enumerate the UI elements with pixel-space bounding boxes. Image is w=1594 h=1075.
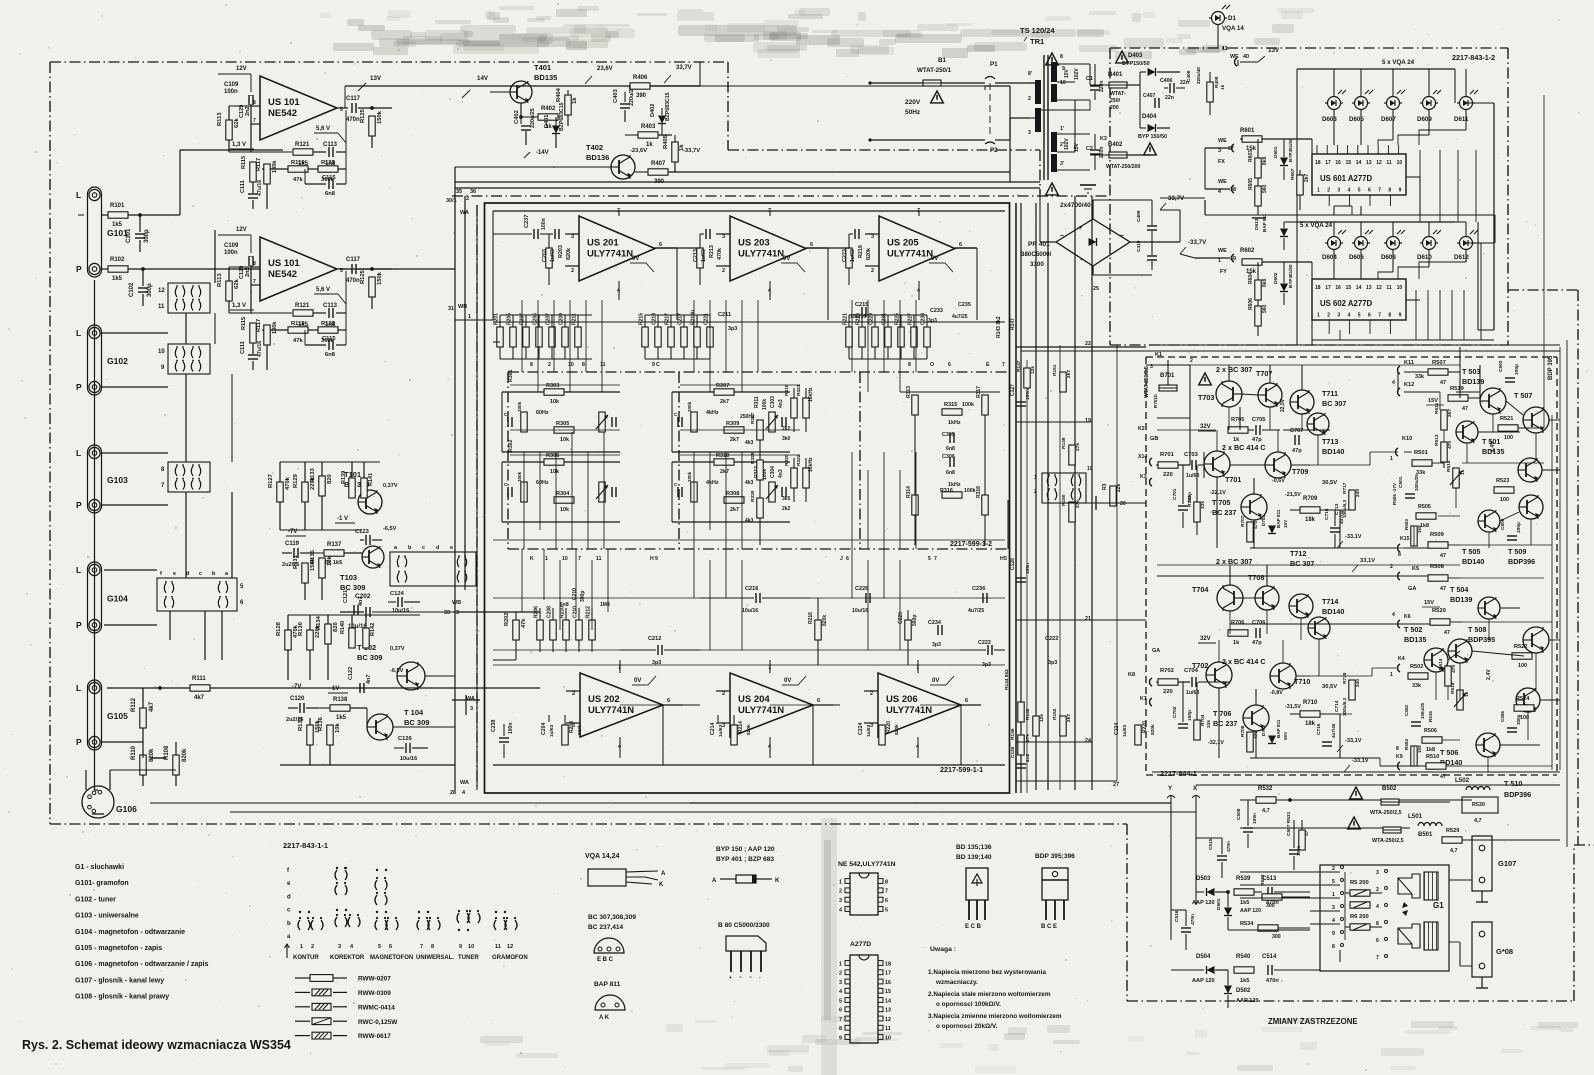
svg-text:R316: R316: [940, 488, 953, 494]
svg-text:-14V: -14V: [536, 150, 549, 156]
svg-text:US 101: US 101: [268, 258, 300, 269]
capacitor C507 R531: [1286, 811, 1310, 870]
svg-text:R606: R606: [1248, 298, 1254, 310]
svg-text:RWW-0207: RWW-0207: [358, 976, 391, 983]
svg-text:4u7/25: 4u7/25: [968, 608, 984, 614]
svg-text:D502: D502: [1236, 988, 1251, 994]
svg-text:B 80 C5000/3300: B 80 C5000/3300: [718, 922, 770, 929]
svg-text:4kHz: 4kHz: [706, 480, 719, 486]
svg-text:2k7: 2k7: [1066, 370, 1072, 378]
svg-text:1': 1': [1060, 126, 1064, 132]
svg-text:47k: 47k: [293, 338, 303, 344]
dash-dot tone dividers: [679, 372, 860, 549]
op-amp US 201: [565, 208, 677, 300]
svg-text:T712: T712: [1290, 549, 1306, 558]
capacitor C403: [613, 86, 635, 122]
svg-text:8k8: 8k8: [1262, 278, 1268, 287]
capacitor C515: [1196, 838, 1232, 878]
svg-text:BC 237,414: BC 237,414: [588, 924, 624, 931]
resistor R402: [519, 106, 560, 130]
ground G105: [143, 750, 166, 758]
svg-text:BAP 811: BAP 811: [1276, 719, 1281, 738]
svg-text:C1: C1: [1086, 76, 1093, 82]
svg-text:US 602 A277D: US 602 A277D: [1320, 299, 1373, 308]
svg-text:-33,1V: -33,1V: [1345, 738, 1362, 744]
svg-text:f: f: [160, 571, 162, 577]
svg-text:5: 5: [928, 556, 931, 562]
svg-text:1: 1: [1390, 456, 1393, 462]
svg-text:C507 R531: C507 R531: [1286, 811, 1292, 836]
svg-text:ULY7741N: ULY7741N: [588, 705, 634, 716]
svg-text:D403: D403: [1128, 53, 1143, 59]
svg-text:A: A: [661, 871, 666, 877]
transistor T-extra right1: [1518, 458, 1542, 482]
capacitor C127: [1010, 384, 1031, 406]
svg-text:TS 120/24: TS 120/24: [1020, 26, 1055, 35]
svg-text:30,5V: 30,5V: [1322, 684, 1337, 690]
svg-text:R604: R604: [1248, 272, 1254, 284]
svg-text:BC 307,308,309: BC 307,308,309: [588, 914, 636, 921]
svg-text:C516: C516: [1174, 910, 1180, 922]
svg-text:22n: 22n: [1165, 95, 1174, 101]
svg-text:6: 6: [846, 556, 849, 562]
svg-text:D402: D402: [650, 104, 656, 117]
svg-text:C409: C409: [1136, 210, 1142, 222]
svg-text:100n: 100n: [224, 89, 238, 95]
svg-text:21: 21: [1085, 616, 1091, 622]
op-amp US101 lower half: [217, 227, 392, 370]
svg-text:R705: R705: [1231, 417, 1244, 423]
resistor R130: [298, 615, 321, 680]
svg-text:470k: 470k: [285, 476, 291, 490]
svg-text:40: 40: [1243, 54, 1249, 60]
svg-text:KONTUR: KONTUR: [293, 955, 319, 961]
svg-text:100: 100: [1500, 497, 1509, 503]
svg-text:G103 - uniwersalne: G103 - uniwersalne: [75, 913, 139, 920]
capacitor C121: [343, 590, 364, 615]
capacitor C212: [620, 636, 700, 666]
svg-text:BAP 811: BAP 811: [1262, 213, 1267, 232]
transformer sec winding upper: [1051, 54, 1090, 102]
svg-text:3: 3: [1376, 870, 1379, 876]
resistor R404: [556, 87, 578, 126]
svg-text:K8: K8: [1128, 672, 1135, 678]
svg-text:GA: GA: [1408, 586, 1416, 592]
svg-text:220n: 220n: [1099, 147, 1105, 158]
svg-text:820k: 820k: [1150, 724, 1156, 735]
caption Rys.2: [22, 1038, 291, 1052]
svg-text:D613: D613: [1254, 218, 1260, 230]
svg-text:T711: T711: [1322, 389, 1338, 398]
svg-text:O: O: [930, 362, 934, 368]
svg-text:3: 3: [1028, 130, 1031, 136]
svg-text:K10: K10: [1402, 436, 1412, 442]
svg-text:BDP395: BDP395: [1468, 635, 1495, 644]
resistor R148 R152: [1025, 708, 1072, 736]
package NE542 DIP8: [838, 861, 896, 915]
resistor R101: [101, 203, 180, 228]
svg-text:8: 8: [885, 879, 888, 885]
resistor R534: [1240, 921, 1310, 940]
svg-text:K3: K3: [1140, 474, 1147, 480]
svg-text:47k: 47k: [521, 618, 527, 628]
svg-text:2: 2: [870, 691, 873, 697]
svg-text:3: 3: [1337, 313, 1340, 319]
svg-text:US 201: US 201: [587, 238, 619, 249]
capacitor C703: [1184, 452, 1204, 479]
svg-text:R702: R702: [1160, 668, 1174, 674]
wire main box vertical mesh: [522, 300, 916, 650]
capacitor C222b: [960, 640, 1005, 668]
svg-text:6: 6: [810, 242, 813, 248]
svg-text:1u/63: 1u/63: [1122, 724, 1128, 737]
connector P1: [985, 61, 1035, 135]
labels winding volts: [1064, 68, 1080, 152]
svg-text:US 202: US 202: [588, 694, 620, 705]
svg-text:KOREKTOR: KOREKTOR: [330, 955, 365, 961]
svg-text:6: 6: [965, 698, 968, 704]
svg-text:8: 8: [1060, 54, 1063, 60]
svg-text:D610: D610: [1417, 254, 1432, 261]
svg-text:R511: R511: [1434, 402, 1440, 414]
svg-text:R405: R405: [663, 134, 669, 149]
svg-text:6: 6: [817, 698, 820, 704]
svg-text:17: 17: [885, 971, 891, 977]
svg-text:US 601 A277D: US 601 A277D: [1320, 174, 1373, 183]
svg-text:C122: C122: [348, 667, 354, 680]
svg-text:470: 470: [1451, 665, 1457, 673]
svg-text:R504: R504: [1404, 739, 1409, 750]
svg-text:32V: 32V: [1200, 636, 1211, 642]
svg-text:4: 4: [839, 907, 842, 913]
svg-text:4: 4: [1332, 918, 1335, 924]
svg-text:16: 16: [1335, 285, 1341, 291]
svg-text:B501: B501: [1418, 832, 1433, 838]
svg-text:820k: 820k: [149, 748, 155, 762]
svg-text:B402: B402: [1108, 142, 1123, 148]
svg-text:L501: L501: [1408, 813, 1423, 820]
svg-text:240: 240: [1355, 679, 1361, 687]
svg-text:5: 5: [1358, 313, 1361, 319]
LED D608: [1381, 222, 1405, 261]
svg-text:5: 5: [1004, 556, 1007, 562]
svg-text:C707: C707: [1290, 428, 1303, 434]
capacitor C216: [700, 586, 810, 614]
svg-text:3k5: 3k5: [782, 496, 791, 502]
svg-text:BC 237: BC 237: [1212, 508, 1236, 517]
svg-text:1u/63: 1u/63: [701, 249, 707, 262]
transistor T503: [1462, 367, 1506, 414]
svg-text:D503: D503: [1196, 876, 1211, 882]
transformer sec winding lower: [1051, 126, 1090, 172]
label 14V: [462, 75, 489, 98]
svg-text:R123: R123: [321, 321, 336, 327]
svg-text:L: L: [76, 448, 81, 458]
svg-text:K7: K7: [1140, 696, 1147, 702]
resistor R129: [293, 462, 316, 530]
svg-text:C214: C214: [710, 722, 716, 735]
bridge PR401: [1020, 219, 1130, 268]
wire mid cross links: [1016, 347, 1146, 781]
svg-text:R505: R505: [1418, 504, 1431, 510]
svg-text:G104: G104: [107, 594, 128, 604]
svg-text:R503: R503: [1404, 519, 1409, 530]
svg-text:R315: R315: [944, 402, 957, 408]
svg-text:4,7: 4,7: [1262, 808, 1270, 814]
switch block K contacts: [1034, 466, 1093, 503]
svg-text:3: 3: [1218, 148, 1221, 154]
label 32V: [1198, 424, 1216, 431]
resistor R6: [1345, 914, 1382, 930]
svg-text:1,3 V: 1,3 V: [232, 142, 246, 148]
svg-text:100p: 100p: [1516, 714, 1521, 725]
resistor R701: [1156, 452, 1190, 478]
svg-text:B401: B401: [1108, 72, 1123, 78]
svg-text:P: P: [76, 264, 82, 274]
svg-text:12: 12: [885, 1017, 891, 1023]
svg-text:R406: R406: [633, 75, 648, 81]
svg-text:T 504: T 504: [1450, 585, 1468, 594]
ground R605: [1252, 217, 1266, 219]
coil L502 R530: [1455, 777, 1531, 824]
svg-text:WTA-250/2,5: WTA-250/2,5: [1370, 810, 1402, 816]
svg-text:R709: R709: [1303, 496, 1318, 502]
svg-text:-21,5V: -21,5V: [1285, 492, 1301, 498]
svg-text:BDP396: BDP396: [1504, 790, 1531, 799]
resistor R519: [1448, 386, 1480, 412]
diode D401: [544, 102, 565, 148]
svg-text:C208: C208: [547, 606, 553, 618]
wire LED weave lower: [1312, 290, 1494, 340]
svg-text:11: 11: [1386, 285, 1392, 291]
svg-text:300: 300: [1266, 903, 1275, 909]
svg-text:220u/40: 220u/40: [1196, 67, 1201, 84]
svg-text:1: 1: [839, 961, 842, 967]
LED D604: [1322, 222, 1346, 261]
svg-text:470n: 470n: [346, 278, 360, 284]
svg-text:7: 7: [253, 279, 256, 285]
connector G102: [76, 325, 128, 395]
svg-text:T713: T713: [1322, 437, 1338, 446]
svg-text:2: 2: [839, 889, 842, 895]
switch block G102 select: [158, 344, 210, 374]
svg-text:7: 7: [253, 118, 256, 124]
svg-text:K4: K4: [1398, 656, 1405, 662]
svg-text:T714: T714: [1322, 597, 1338, 606]
capacitor C514: [1262, 954, 1320, 984]
svg-text:5,6 V: 5,6 V: [316, 287, 330, 293]
label -1V: [335, 516, 355, 523]
svg-text:5: 5: [1358, 188, 1361, 194]
svg-text:RWMC-0414: RWMC-0414: [358, 1004, 395, 1011]
svg-text:R703: R703: [1187, 495, 1193, 507]
svg-text:8: 8: [582, 362, 585, 368]
svg-text:560p: 560p: [912, 615, 918, 626]
wires LED row2 to IC: [1329, 250, 1466, 335]
diode D402: [650, 92, 671, 135]
connector G103: [76, 445, 128, 513]
svg-text:47u/16: 47u/16: [257, 180, 263, 196]
svg-text:R522: R522: [1514, 644, 1527, 650]
capacitor C101: [126, 215, 150, 252]
svg-text:60Hz: 60Hz: [536, 410, 549, 416]
svg-text:1k8: 1k8: [1417, 525, 1422, 533]
svg-text:300p: 300p: [147, 283, 153, 297]
svg-text:6: 6: [389, 944, 392, 950]
svg-text:9: 9: [1332, 931, 1335, 937]
svg-text:d: d: [287, 894, 291, 900]
label BDP395 vert: [1548, 355, 1554, 380]
svg-text:-23,6V: -23,6V: [630, 148, 647, 154]
svg-text:E: E: [986, 362, 990, 368]
svg-text:130k: 130k: [272, 321, 278, 334]
capacitor C126: [394, 736, 428, 762]
svg-text:R221: R221: [843, 313, 849, 325]
svg-text:R3: R3: [1102, 483, 1108, 490]
resistor R601: [1240, 128, 1312, 154]
labels C211 C215: [718, 302, 971, 332]
svg-text:13: 13: [1366, 285, 1372, 291]
label 33,7V: [664, 65, 692, 83]
capacitor C234: [928, 620, 942, 648]
svg-text:G107 - glosnik - kanal lewy: G107 - glosnik - kanal lewy: [75, 977, 164, 984]
svg-text:L502: L502: [1455, 777, 1470, 784]
svg-text:GA: GA: [1152, 648, 1160, 654]
svg-text:C216: C216: [745, 586, 758, 592]
resistor R523: [1494, 478, 1514, 503]
svg-text:C126: C126: [1010, 746, 1016, 758]
svg-text:4k3: 4k3: [745, 480, 754, 486]
label 2,4V: [1490, 441, 1496, 452]
svg-text:2: 2: [871, 268, 874, 274]
svg-text:US 203: US 203: [738, 238, 770, 249]
svg-text:47: 47: [1440, 553, 1446, 559]
svg-text:150p: 150p: [1187, 710, 1193, 721]
svg-text:D702: D702: [1261, 725, 1266, 736]
svg-text:R605: R605: [1248, 178, 1254, 190]
svg-text:C402: C402: [514, 110, 520, 124]
wire box bottom bus: [493, 660, 1005, 765]
resistor R505: [1416, 504, 1436, 529]
wires LED row1 to IC: [1334, 110, 1466, 146]
transistor T507: [1514, 391, 1549, 433]
svg-text:1u/63: 1u/63: [550, 249, 556, 262]
svg-text:0V: 0V: [931, 256, 938, 262]
capacitor C707: [1290, 428, 1303, 454]
fuse B1: [870, 57, 985, 103]
svg-text:5: 5: [839, 998, 842, 1004]
svg-text:R220: R220: [886, 721, 892, 733]
svg-text:240: 240: [1355, 489, 1361, 497]
svg-text:3: 3: [470, 706, 473, 712]
svg-text:K15: K15: [1400, 536, 1410, 542]
svg-text:R220: R220: [1142, 721, 1148, 733]
capacitor C122: [348, 667, 372, 693]
svg-text:10k: 10k: [560, 507, 569, 513]
svg-text:10: 10: [1397, 160, 1403, 166]
svg-text:6n8: 6n8: [560, 602, 569, 608]
svg-text:R516: R516: [1428, 711, 1433, 722]
label 2x4700/40: [1060, 202, 1091, 209]
svg-text:820k: 820k: [577, 724, 583, 735]
svg-text:R403: R403: [641, 124, 656, 130]
svg-text:100n: 100n: [541, 218, 547, 230]
svg-text:C119: C119: [285, 541, 300, 547]
label -23,6V: [630, 148, 647, 154]
transistor T506: [1440, 733, 1500, 767]
svg-text:C213: C213: [693, 249, 699, 262]
svg-text:2: 2: [1190, 358, 1193, 364]
svg-text:C127: C127: [1010, 384, 1016, 396]
svg-text:P: P: [76, 382, 82, 392]
connector G106 DIN socket: [82, 786, 137, 818]
svg-text:9: 9: [652, 362, 655, 368]
svg-text:C117: C117: [346, 257, 361, 263]
svg-text:T402: T402: [586, 143, 603, 152]
svg-text:1k: 1k: [646, 142, 653, 148]
svg-text:100p: 100p: [1516, 522, 1522, 533]
label -6,5V flag: [383, 526, 397, 532]
speaker group G1 box: [1320, 865, 1449, 971]
svg-text:8: 8: [253, 261, 256, 267]
svg-text:+: +: [1078, 225, 1082, 232]
svg-text:C222: C222: [978, 640, 991, 646]
svg-text:10u/16: 10u/16: [852, 608, 868, 614]
svg-text:T 706: T 706: [1213, 709, 1231, 718]
capacitor C513: [1262, 876, 1310, 906]
capacitor C120: [286, 696, 318, 723]
label 2217-599-1-2: [950, 500, 1008, 549]
svg-text:R718: R718: [1342, 672, 1348, 684]
resistor R135: [310, 549, 333, 600]
svg-text:11: 11: [885, 1026, 891, 1032]
svg-text:T710: T710: [1294, 677, 1310, 686]
diode D504: [1171, 954, 1228, 984]
labels C213 R213: [693, 245, 723, 262]
svg-text:4: 4: [1348, 313, 1351, 319]
svg-text:T 507: T 507: [1514, 391, 1532, 400]
svg-text:2k2: 2k2: [782, 426, 791, 432]
svg-text:R131: R131: [293, 554, 299, 569]
svg-text:P: P: [76, 737, 82, 747]
svg-text:BYP150/50: BYP150/50: [1122, 61, 1150, 67]
svg-text:820k: 820k: [822, 615, 828, 626]
svg-text:4n3: 4n3: [778, 469, 784, 478]
svg-text:820k: 820k: [182, 748, 188, 762]
svg-text:47: 47: [1462, 406, 1468, 412]
svg-text:~: ~: [1120, 233, 1124, 240]
transistor T505: [1462, 510, 1500, 566]
resistor R703: [1187, 465, 1206, 535]
svg-text:12k: 12k: [1030, 366, 1036, 374]
svg-text:G*08: G*08: [1496, 947, 1513, 956]
resistor R131: [293, 554, 316, 600]
svg-text:470k: 470k: [717, 248, 723, 260]
svg-text:K: K: [659, 882, 664, 888]
svg-text:R519: R519: [1450, 386, 1465, 392]
svg-text:UNIWERSAL.: UNIWERSAL.: [416, 955, 454, 961]
frame 2217-844-1 power-amp dashed border: [1146, 357, 1557, 775]
svg-text:G102 - tuner: G102 - tuner: [75, 896, 116, 903]
capacitor C123: [355, 529, 382, 545]
svg-text:1u/63: 1u/63: [850, 249, 856, 262]
svg-text:R307: R307: [716, 383, 729, 389]
svg-text:130k: 130k: [272, 160, 278, 173]
svg-text:16kHz: 16kHz: [808, 387, 814, 402]
svg-text:2: 2: [1376, 887, 1379, 893]
svg-text:R115: R115: [241, 317, 247, 330]
svg-text:820: 820: [333, 622, 339, 632]
